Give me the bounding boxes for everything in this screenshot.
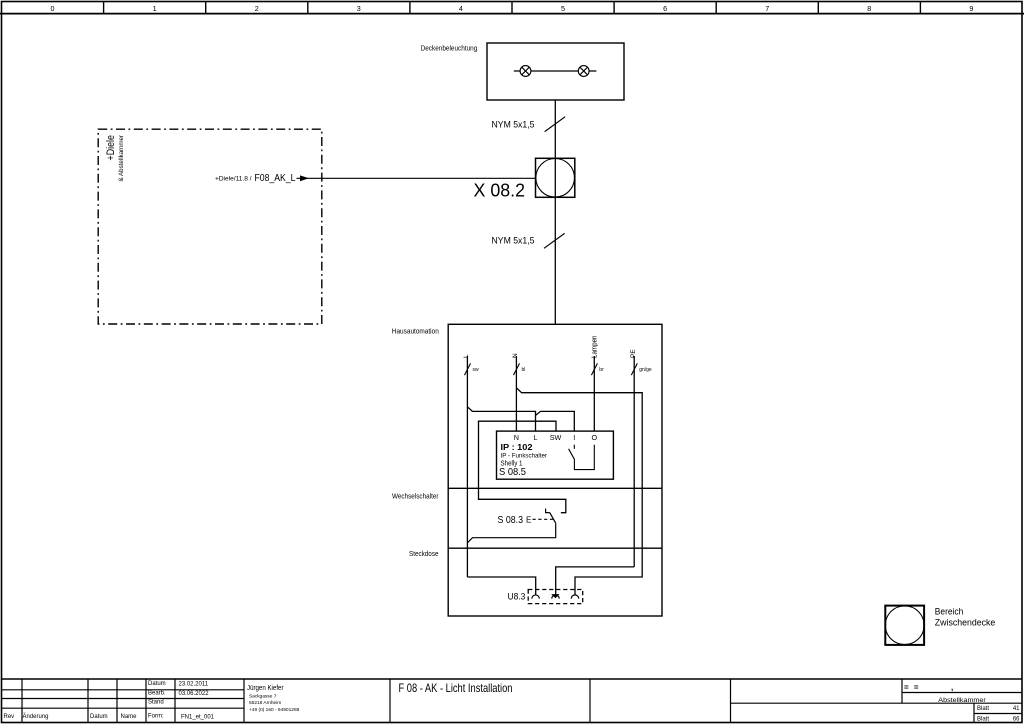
svg-text:Deckenbeleuchtung: Deckenbeleuchtung — [421, 44, 478, 53]
svg-text:2: 2 — [255, 4, 259, 13]
svg-text:Jürgen Kiefer: Jürgen Kiefer — [247, 685, 284, 692]
svg-text:Wechselschalter: Wechselschalter — [392, 492, 439, 501]
svg-text:Datum: Datum — [90, 714, 108, 720]
svg-text:3: 3 — [357, 4, 361, 13]
svg-text:U8.3: U8.3 — [508, 592, 526, 602]
svg-text:Steckdose: Steckdose — [409, 549, 439, 558]
svg-text:IP : 102: IP : 102 — [501, 443, 534, 452]
svg-text:X 08.2: X 08.2 — [474, 180, 526, 201]
svg-text:bl: bl — [522, 367, 526, 373]
svg-text:1: 1 — [153, 4, 157, 13]
svg-text:Datum: Datum — [148, 681, 166, 687]
svg-text:0: 0 — [51, 4, 55, 13]
svg-text:NYM 5x1,5: NYM 5x1,5 — [492, 235, 535, 245]
svg-text:S 08.3: S 08.3 — [498, 514, 524, 526]
svg-text:br: br — [599, 367, 604, 373]
svg-text:6: 6 — [663, 4, 667, 13]
svg-text:I: I — [573, 433, 575, 442]
svg-text:7: 7 — [765, 4, 769, 13]
svg-text:NYM 5x1,5: NYM 5x1,5 — [492, 119, 535, 129]
svg-text:FN1_et_001: FN1_et_001 — [181, 715, 215, 721]
svg-text:O: O — [592, 433, 598, 442]
svg-text:4: 4 — [459, 4, 463, 13]
svg-text:N: N — [514, 433, 519, 442]
svg-text:03.06.2022: 03.06.2022 — [179, 691, 210, 697]
svg-text:,: , — [951, 683, 953, 692]
svg-text:N: N — [512, 353, 519, 358]
svg-text:L: L — [463, 354, 470, 358]
svg-text:L: L — [534, 433, 538, 442]
svg-text:9: 9 — [969, 4, 973, 13]
svg-text:8: 8 — [867, 4, 871, 13]
svg-text:Name: Name — [121, 714, 138, 720]
svg-text:5: 5 — [561, 4, 565, 13]
svg-text:Änderung: Änderung — [23, 713, 49, 720]
svg-text:Bereich: Bereich — [935, 607, 964, 617]
svg-text:SW: SW — [550, 433, 562, 442]
svg-text:Blatt: Blatt — [977, 706, 989, 712]
svg-text:E: E — [526, 516, 531, 525]
svg-text:Sackgasse 7: Sackgasse 7 — [249, 693, 277, 699]
svg-text:+Diele/11.8 /: +Diele/11.8 / — [215, 176, 252, 183]
svg-text:Form:: Form: — [148, 714, 164, 720]
svg-text:S 08.5: S 08.5 — [499, 466, 526, 478]
svg-text:+49 (0) 160 - 94901288: +49 (0) 160 - 94901288 — [249, 707, 300, 713]
svg-text:F 08 - AK - Licht Installation: F 08 - AK - Licht Installation — [399, 681, 513, 695]
svg-text:Zwischendecke: Zwischendecke — [935, 618, 996, 628]
svg-text:sw: sw — [473, 367, 480, 373]
svg-text:IP - Funkschalter: IP - Funkschalter — [501, 453, 548, 460]
svg-text:55218 Arnheim: 55218 Arnheim — [249, 700, 281, 706]
svg-text:+Diele: +Diele — [105, 135, 117, 161]
svg-text:F08_AK_L: F08_AK_L — [255, 172, 296, 184]
svg-text:Stand: Stand — [148, 699, 164, 705]
svg-text:& Abstellkammer: & Abstellkammer — [118, 134, 125, 181]
svg-text:Abstellkammer: Abstellkammer — [938, 697, 986, 704]
svg-text:Hausautomation: Hausautomation — [392, 327, 439, 336]
svg-text:Blatt: Blatt — [977, 716, 989, 722]
svg-text:PE: PE — [630, 349, 637, 358]
svg-text:41: 41 — [1013, 706, 1020, 712]
svg-text:23.02.2011: 23.02.2011 — [179, 681, 209, 687]
svg-text:Rev: Rev — [4, 714, 15, 720]
svg-text:Bearb.: Bearb. — [148, 691, 166, 697]
svg-text:gn/ge: gn/ge — [639, 367, 652, 373]
svg-text:66: 66 — [1013, 716, 1020, 722]
svg-text:Lampen: Lampen — [592, 335, 599, 358]
svg-text:= =: = = — [904, 683, 920, 692]
